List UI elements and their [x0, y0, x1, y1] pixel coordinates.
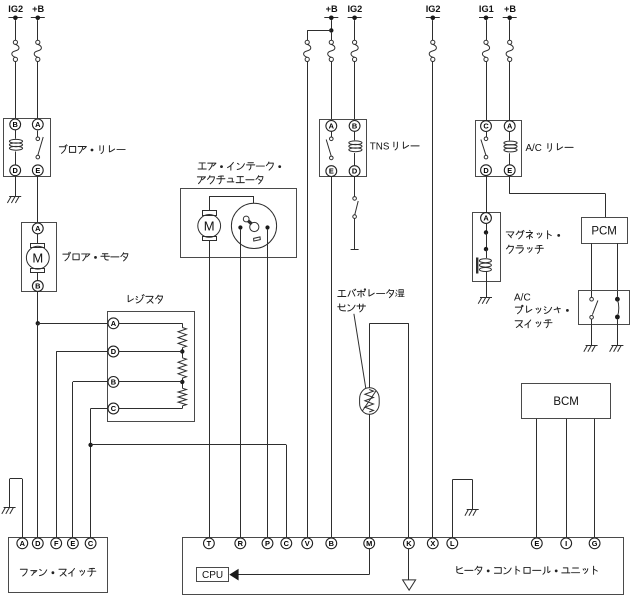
air intake actuator box	[181, 189, 297, 258]
svg-text:D: D	[352, 167, 358, 176]
wire motor B to junction	[37, 291, 39, 323]
svg-text:PCM: PCM	[591, 225, 617, 237]
svg-text:L: L	[450, 539, 455, 548]
svg-text:C: C	[111, 404, 117, 413]
resistor R2	[178, 358, 186, 378]
svg-text:IG2: IG2	[347, 4, 362, 14]
svg-text:A: A	[20, 539, 26, 548]
svg-text:B: B	[13, 120, 18, 129]
wire TNS D to lighting switch	[354, 176, 356, 196]
svg-text:E: E	[507, 166, 512, 175]
wire BCM to heater G	[594, 419, 596, 538]
ground (blower relay D)	[7, 176, 21, 203]
label pressure switch line2	[515, 305, 568, 313]
actuator rotary switch	[231, 203, 276, 248]
power feed IG2 (mid-right)	[426, 4, 441, 20]
lighting switch (below TNS D)	[351, 197, 359, 250]
wire res D to fan switch F	[56, 352, 107, 538]
fan switch box	[9, 538, 108, 593]
wire res B to fan switch E	[73, 382, 108, 538]
svg-text:M: M	[204, 219, 215, 234]
resistor R3	[178, 388, 186, 406]
svg-text:D: D	[13, 166, 19, 175]
label resistor (rejisuta)	[128, 295, 162, 304]
power feed +B (right)	[503, 4, 517, 20]
wire motor top to rotary switch	[209, 196, 254, 211]
fusible link (IG1 right)	[482, 20, 489, 120]
svg-text:+B: +B	[504, 4, 516, 14]
label heater control unit	[457, 566, 597, 574]
wire junction down to fan switch D	[37, 323, 39, 537]
svg-text:B: B	[329, 539, 334, 548]
label blower motor	[63, 252, 128, 261]
svg-text:E: E	[70, 539, 75, 548]
wire+node R2/R3 junction (B tap)	[119, 378, 185, 388]
wire chain bottom to C	[119, 406, 183, 409]
label evap sensor line1	[338, 289, 405, 298]
svg-text:K: K	[406, 539, 412, 548]
evaporator temp sensor (thermistor)	[360, 388, 380, 414]
heater control unit box	[183, 538, 624, 595]
svg-text:E: E	[534, 539, 539, 548]
svg-text:D: D	[483, 166, 489, 175]
wire res C down	[91, 409, 108, 538]
svg-text:CPU: CPU	[202, 570, 223, 581]
wire BCM to heater E	[536, 419, 538, 538]
fusible link (IG2 left)	[12, 20, 19, 118]
blower relay (burowa rire)	[4, 119, 51, 177]
svg-text:T: T	[207, 539, 212, 548]
resistor R1	[178, 328, 186, 348]
ground (pressure switch left)	[584, 319, 598, 352]
svg-text:B: B	[352, 122, 357, 131]
ground (magnet clutch)	[478, 282, 492, 304]
svg-text:I: I	[565, 539, 567, 548]
svg-text:C: C	[483, 122, 489, 131]
wire PCM to pressure switch right	[617, 243, 619, 296]
label TNS relay	[370, 142, 419, 153]
fusible link (IG2 center)	[351, 20, 358, 120]
svg-text:G: G	[592, 539, 598, 548]
wire C junction to heater unit C	[91, 445, 287, 538]
svg-text:B: B	[111, 378, 116, 387]
label magnet clutch line1	[506, 230, 560, 239]
fusible link (IG2 mid-right)	[429, 20, 436, 537]
wire+node R1/R2 junction (D tap)	[119, 348, 185, 358]
TNS relay box	[320, 120, 367, 177]
ground (pressure switch right)	[610, 319, 624, 351]
label A/C relay	[526, 143, 574, 154]
BCM module	[522, 384, 611, 419]
node junction on C wire	[88, 443, 92, 447]
svg-text:+B: +B	[32, 4, 44, 14]
svg-text:B: B	[35, 282, 40, 291]
power feed IG2 (left)	[8, 4, 23, 20]
node junction below motor	[36, 321, 40, 325]
svg-text:C: C	[284, 539, 290, 548]
svg-text:TNS: TNS	[370, 142, 390, 153]
wire A/C D to magnet clutch A	[486, 176, 488, 213]
svg-text:D: D	[111, 347, 117, 356]
svg-text:M: M	[366, 539, 372, 548]
svg-text:M: M	[32, 250, 43, 265]
label magnet clutch line2	[506, 245, 543, 253]
svg-text:BCM: BCM	[553, 396, 579, 408]
wire BCM to heater I	[566, 419, 568, 538]
wire res A to chain	[119, 323, 183, 327]
wire junction to resistor A	[38, 323, 108, 325]
A/C relay box	[476, 121, 522, 177]
wire+ground (heater L)	[452, 480, 478, 538]
svg-text:A: A	[507, 122, 513, 131]
svg-text:R: R	[238, 539, 244, 548]
svg-text:V: V	[305, 539, 310, 548]
svg-text:A: A	[111, 319, 117, 328]
label blower relay	[59, 145, 125, 154]
svg-text:A: A	[35, 120, 41, 129]
wire heater M to CPU (arrow)	[229, 549, 369, 581]
label air intake line1	[198, 162, 281, 170]
fusible link (+B branch to V)	[304, 40, 311, 537]
CPU block	[197, 568, 229, 582]
power feed IG2 (center)	[347, 4, 362, 20]
svg-text:D: D	[35, 539, 41, 548]
svg-text:A/C: A/C	[526, 143, 542, 154]
fusible link (+B left)	[34, 20, 41, 118]
svg-text:X: X	[430, 539, 435, 548]
svg-text:IG1: IG1	[479, 4, 494, 14]
wire relay E to blower motor A	[37, 176, 39, 223]
svg-text:A/C: A/C	[514, 293, 531, 304]
svg-text:P: P	[265, 539, 270, 548]
svg-text:A: A	[35, 224, 41, 233]
label pressure switch line1	[514, 293, 531, 304]
wire PCM to pressure switch left	[591, 243, 593, 297]
resistor block box	[108, 312, 195, 422]
output triangle below K	[403, 580, 416, 590]
svg-text:A: A	[483, 214, 489, 223]
A/C pressure switch box	[579, 291, 630, 325]
wire actuator right contact to heater P	[267, 230, 269, 538]
svg-text:E: E	[35, 166, 40, 175]
power feed IG1 (right)	[479, 4, 494, 20]
power feed +B (center)	[324, 4, 338, 20]
fusible link (+B right)	[506, 20, 513, 120]
svg-text:IG2: IG2	[8, 4, 23, 14]
svg-text:E: E	[329, 167, 334, 176]
wire A/C E to PCM	[510, 176, 606, 218]
svg-text:A: A	[329, 122, 335, 131]
label pressure switch line3	[515, 320, 552, 328]
wire sensor bottom to heater M	[369, 414, 371, 537]
wire actuator motor to heater T	[209, 241, 211, 538]
PCM module	[582, 218, 628, 244]
power feed +B (left)	[31, 4, 45, 20]
fusible link (+B center)	[328, 33, 335, 120]
label fan switch	[20, 568, 95, 576]
svg-text:F: F	[54, 539, 59, 548]
wire TNS E to heater B	[331, 176, 333, 537]
svg-text:IG2: IG2	[426, 4, 441, 14]
wire+ground (fan switch A)	[2, 479, 23, 538]
magnet clutch box	[473, 213, 501, 282]
wire actuator left contact to heater R	[240, 230, 242, 538]
blower motor (burowa mota)	[22, 223, 57, 292]
svg-text:+B: +B	[326, 4, 338, 14]
wire +B center junction branch	[307, 20, 333, 40]
svg-text:C: C	[88, 539, 94, 548]
actuator motor M	[198, 211, 221, 241]
label air intake line2	[197, 176, 263, 184]
wire sensor top loop to heater K	[369, 324, 409, 538]
leader line to sensor	[354, 314, 366, 389]
wire heater K to output arrow	[408, 549, 410, 580]
label evap sensor line2	[338, 304, 366, 312]
